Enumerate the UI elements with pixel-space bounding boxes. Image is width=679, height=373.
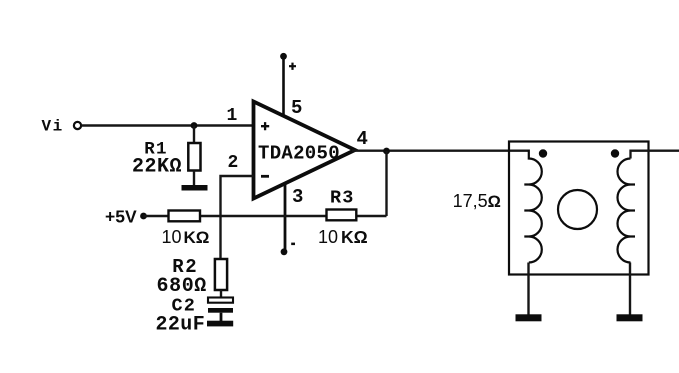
svg-text:TDA2050: TDA2050 [258,143,340,165]
resistor 10KΩ (bias) [169,211,201,222]
wire right coil exit [631,151,679,159]
wire R2 to C2 [220,290,222,298]
wire +5V rail [144,215,387,218]
svg-text:3: 3 [292,186,303,208]
capacitor C2 bottom plate [208,308,233,313]
wire R1 top lead [193,126,195,145]
wire R1 bottom lead [193,171,195,187]
svg-text:10KΩ: 10KΩ [162,227,210,247]
terminal dot +5V [140,213,147,220]
label + supply [289,63,296,70]
wire pin 3 (negative supply) [284,183,287,252]
svg-text:5: 5 [291,97,302,119]
speaker box [509,142,649,275]
svg-text:22KΩ: 22KΩ [132,156,182,179]
inductor right coil [618,159,636,263]
wire op-amp output [352,150,529,152]
junction at R1 top [191,122,198,129]
ground below C2 [207,321,233,327]
svg-text:2: 2 [228,153,239,173]
svg-text:1: 1 [227,106,238,126]
svg-text:R3: R3 [330,188,355,209]
ground right speaker terminal [617,314,643,321]
op-amp inverting input - mark [261,175,269,178]
svg-text:22uF: 22uF [156,313,206,336]
svg-text:+5V: +5V [105,206,137,226]
inductor left coil [524,150,542,263]
svg-text:10KΩ: 10KΩ [318,227,368,247]
wire pin 2 [221,176,254,216]
input terminal open circle [74,122,81,129]
svg-text:Vi: Vi [42,117,64,135]
junction at output node [383,148,390,155]
supply terminal dot (-) [281,248,288,255]
wire feedback vertical [385,151,387,216]
svg-text:17,5Ω: 17,5Ω [453,191,501,211]
wire R2 top lead [219,216,221,260]
ground left speaker terminal [516,314,542,321]
phase dot left [539,149,547,157]
wire right coil to ground [629,263,631,316]
resistor R1 [188,143,200,171]
capacitor C2 top plate [208,298,233,303]
svg-text:4: 4 [357,128,368,150]
supply terminal dot (+) [280,53,287,60]
op-amp U1 TDA2050 [254,102,356,199]
label - supply [291,243,295,246]
phase dot right [611,149,619,157]
wire pin 5 (positive supply) [282,56,285,117]
wire C2 to ground [220,313,223,322]
resistor R3 [327,210,357,221]
ground below R1 [182,185,208,191]
speaker magnet circle [558,190,597,229]
wire Vi to op-amp pin 1 [82,124,254,126]
op-amp non-inverting input + mark [261,122,269,130]
wire left coil to ground [527,263,529,316]
resistor R2 [215,259,227,290]
